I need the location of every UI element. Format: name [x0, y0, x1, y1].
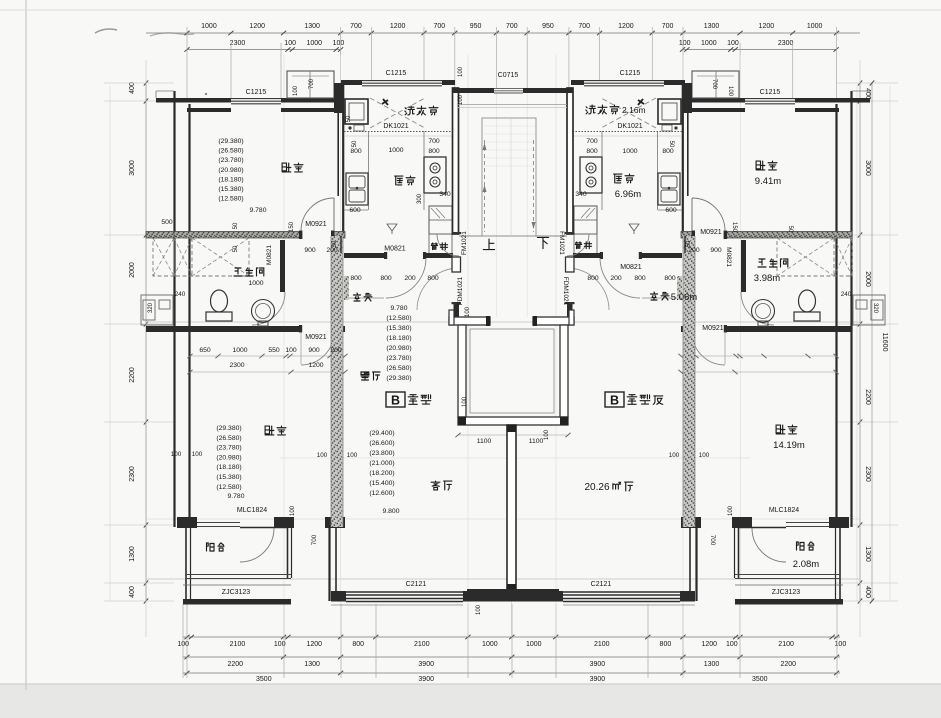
- room label entry right: [651, 292, 658, 300]
- svg-text:700: 700: [311, 534, 318, 545]
- svg-text:100: 100: [462, 396, 468, 407]
- room label living left: [431, 481, 440, 490]
- svg-text:1200: 1200: [390, 23, 406, 30]
- svg-text:3500: 3500: [256, 676, 272, 683]
- svg-text:(23.780): (23.780): [386, 355, 411, 362]
- faucet icon: [382, 99, 388, 105]
- kitchen counter edge: [368, 131, 370, 210]
- svg-text:100: 100: [458, 94, 464, 105]
- window C0715: [494, 88, 523, 90]
- FM door arcs: [437, 234, 459, 256]
- svg-text:700: 700: [428, 138, 440, 145]
- stair top wall: [453, 88, 494, 93]
- west exterior wall: [173, 91, 175, 527]
- svg-text:2100: 2100: [414, 641, 430, 648]
- faint treads: [483, 125, 535, 127]
- svg-text:2.08m: 2.08m: [793, 559, 819, 570]
- svg-text:9.780: 9.780: [249, 207, 266, 214]
- svg-text:20.26: 20.26: [584, 482, 609, 493]
- svg-text:C1215: C1215: [620, 70, 641, 77]
- stairs up down: [483, 239, 494, 250]
- svg-text:2.16m: 2.16m: [622, 105, 646, 115]
- svg-text:C0715: C0715: [498, 72, 519, 79]
- faint vertical construction lines: [283, 55, 285, 637]
- svg-text:100: 100: [728, 505, 734, 516]
- room label entry left: [354, 293, 361, 301]
- kitchen west wall lower: [340, 236, 342, 253]
- svg-text:2200: 2200: [227, 661, 243, 668]
- svg-text:240: 240: [841, 291, 852, 298]
- svg-text:FM1021: FM1021: [461, 231, 468, 255]
- kitchen sink: [346, 173, 368, 205]
- top extension lines: [186, 27, 188, 98]
- svg-text:2300: 2300: [864, 466, 871, 482]
- svg-text:M0821: M0821: [620, 264, 642, 271]
- stair dashed arrow down: [533, 140, 535, 232]
- svg-text:950: 950: [470, 23, 482, 30]
- floor drain triangle: [387, 224, 397, 234]
- svg-text:M0821: M0821: [266, 245, 273, 265]
- window C2121 left (4 lines): [346, 591, 463, 593]
- svg-text:(18.180): (18.180): [386, 335, 411, 342]
- elevator shaft side walls: [458, 325, 466, 417]
- svg-text:(29.380): (29.380): [216, 425, 241, 432]
- svg-text:DK1021: DK1021: [383, 123, 408, 130]
- svg-text:320: 320: [148, 302, 154, 313]
- svg-text:320: 320: [872, 303, 878, 314]
- svg-text:6.96m: 6.96m: [615, 189, 641, 200]
- svg-text:(18.200): (18.200): [369, 470, 394, 477]
- bottom extension lines: [182, 604, 184, 678]
- svg-text:100: 100: [835, 641, 847, 648]
- svg-text:800: 800: [350, 148, 362, 155]
- door arc MLC1824: [240, 528, 274, 562]
- svg-text:1300: 1300: [704, 661, 720, 668]
- washer appliance: [345, 99, 368, 124]
- svg-text:800: 800: [350, 275, 362, 282]
- svg-text:1200: 1200: [308, 362, 323, 369]
- svg-text:50: 50: [233, 245, 239, 252]
- balcony east wall: [287, 517, 289, 578]
- closet walls in hallway: [344, 276, 349, 300]
- counter right edge: [423, 131, 425, 157]
- toilet: [206, 312, 232, 321]
- svg-text:900: 900: [710, 247, 722, 254]
- left dimension chain: [145, 83, 147, 601]
- svg-text:FDM1021: FDM1021: [457, 276, 464, 305]
- svg-text:50: 50: [787, 226, 793, 233]
- svg-text:C2121: C2121: [406, 581, 427, 588]
- svg-text:(26.580): (26.580): [386, 365, 411, 372]
- top-left scan smudges: [95, 29, 117, 33]
- svg-text:100: 100: [458, 66, 464, 77]
- svg-text:500: 500: [161, 219, 173, 226]
- svg-text:800: 800: [634, 275, 646, 282]
- svg-text:1000: 1000: [232, 347, 247, 354]
- svg-text:1000: 1000: [701, 40, 717, 47]
- room label laundry left: [405, 106, 415, 115]
- svg-text:1000: 1000: [622, 148, 637, 155]
- svg-text:550: 550: [268, 347, 280, 354]
- svg-text:3900: 3900: [418, 676, 434, 683]
- room label dining left: [361, 372, 369, 380]
- svg-text:100: 100: [171, 451, 182, 458]
- stair landing line: [459, 235, 567, 237]
- svg-text:(12.580): (12.580): [218, 196, 243, 203]
- room label bedroom2 left: [265, 426, 274, 435]
- svg-text:100: 100: [293, 85, 299, 96]
- svg-text:1200: 1200: [618, 23, 634, 30]
- svg-text:1200: 1200: [702, 641, 718, 648]
- stair core east wall: [567, 88, 573, 234]
- svg-text:2100: 2100: [230, 641, 246, 648]
- balcony west wall: [185, 528, 187, 604]
- svg-text:200: 200: [330, 347, 342, 354]
- bottom scanner gray band: [0, 684, 941, 718]
- svg-text:900: 900: [308, 347, 320, 354]
- svg-text:2000: 2000: [129, 262, 136, 278]
- svg-text:(29.380): (29.380): [218, 138, 243, 145]
- stair dashed arrow up: [484, 140, 486, 232]
- svg-text:(20.980): (20.980): [386, 345, 411, 352]
- svg-text:800: 800: [352, 641, 364, 648]
- svg-text:3900: 3900: [418, 661, 434, 668]
- svg-text:2300: 2300: [230, 40, 246, 47]
- svg-text:150: 150: [731, 222, 737, 233]
- unit label B right: [605, 392, 624, 407]
- svg-text:800: 800: [660, 641, 672, 648]
- svg-text:2200: 2200: [129, 367, 136, 383]
- svg-text:9.780: 9.780: [227, 493, 244, 500]
- svg-text:100: 100: [192, 451, 203, 458]
- svg-text:1000: 1000: [388, 147, 403, 154]
- top dimension line row1: [146, 32, 860, 34]
- bottom dimension row2: [183, 656, 840, 658]
- svg-text:400: 400: [129, 82, 136, 94]
- svg-text:M0921: M0921: [700, 229, 722, 236]
- left unit top exterior wall: [156, 98, 231, 103]
- svg-text:M0921: M0921: [702, 325, 724, 332]
- svg-text:1300: 1300: [304, 661, 320, 668]
- right unit geometry (mirror): [559, 71, 885, 605]
- svg-text:900: 900: [304, 247, 316, 254]
- svg-text:600: 600: [349, 207, 361, 214]
- stove: [424, 157, 446, 193]
- svg-text:800: 800: [662, 148, 674, 155]
- svg-text:400: 400: [129, 586, 136, 598]
- svg-text:1000: 1000: [248, 280, 263, 287]
- svg-text:100: 100: [285, 347, 297, 354]
- svg-text:100: 100: [726, 641, 738, 648]
- svg-text:1000: 1000: [306, 40, 322, 47]
- svg-text:3000: 3000: [129, 160, 136, 176]
- structural speckled wall band: [331, 236, 343, 527]
- balcony south rail/window ZJC3123: [186, 574, 291, 576]
- svg-text:950: 950: [542, 23, 554, 30]
- room label bedroom1 left: [282, 163, 291, 172]
- svg-text:100: 100: [317, 452, 328, 459]
- unit label B left: [386, 392, 405, 407]
- svg-text:2300: 2300: [778, 40, 794, 47]
- kitchen south wall w/ door M0821: [344, 253, 384, 258]
- left page edge line: [25, 0, 27, 690]
- room label shaft left: [431, 243, 437, 250]
- svg-text:(20.980): (20.980): [218, 167, 243, 174]
- svg-text:3000: 3000: [864, 160, 871, 176]
- svg-text:14.19m: 14.19m: [773, 440, 805, 451]
- svg-text:50: 50: [346, 115, 352, 122]
- svg-text:M0921: M0921: [305, 334, 327, 341]
- svg-text:2300: 2300: [229, 362, 244, 369]
- svg-text:100: 100: [679, 40, 691, 47]
- svg-text:340: 340: [575, 191, 587, 198]
- svg-text:700: 700: [309, 78, 315, 89]
- room label balcony right: [797, 542, 805, 550]
- entry door arc FDM1021: [417, 268, 459, 310]
- svg-text:1200: 1200: [306, 641, 322, 648]
- svg-text:50: 50: [686, 240, 692, 247]
- svg-text:(29.380): (29.380): [386, 375, 411, 382]
- wash basin: [252, 300, 275, 323]
- balcony corner block NE: [274, 517, 294, 528]
- svg-text:M0821: M0821: [384, 246, 406, 253]
- stair inner outline: [482, 118, 536, 236]
- svg-text:MLC1824: MLC1824: [769, 507, 799, 514]
- svg-text:800: 800: [586, 148, 598, 155]
- svg-text:100: 100: [290, 505, 296, 516]
- room label bathroom left: [234, 268, 242, 276]
- svg-text:800: 800: [428, 148, 440, 155]
- svg-text:200: 200: [404, 275, 416, 282]
- svg-text:MLC1824: MLC1824: [237, 507, 267, 514]
- svg-text:C1215: C1215: [760, 89, 781, 96]
- stair core west wall: [453, 88, 459, 234]
- svg-text:2200: 2200: [781, 661, 797, 668]
- svg-text:9.800: 9.800: [382, 508, 399, 515]
- top dimension line row2: [187, 49, 341, 51]
- svg-text:240: 240: [175, 291, 186, 298]
- svg-text:100: 100: [476, 604, 482, 615]
- svg-text:1300: 1300: [129, 546, 136, 562]
- svg-text:(15.400): (15.400): [369, 480, 394, 487]
- bathroom east partition w/ door M0821: [280, 240, 285, 292]
- door arc M0921 lower: [301, 332, 334, 365]
- svg-text:300: 300: [417, 193, 423, 204]
- corner column top: [334, 83, 343, 113]
- svg-text:1000: 1000: [482, 641, 498, 648]
- elevator shaft bottom wall: [458, 417, 568, 425]
- svg-text:600: 600: [665, 207, 677, 214]
- right dimension chain: [859, 83, 861, 601]
- svg-text:B: B: [610, 394, 619, 408]
- long construction lines: [145, 60, 147, 637]
- svg-text:1200: 1200: [759, 23, 775, 30]
- room label shaft right: [575, 242, 581, 249]
- room label balcony left: [207, 543, 215, 551]
- svg-text:100: 100: [699, 452, 710, 459]
- svg-text:1300: 1300: [864, 546, 871, 562]
- bedroom1 east wall: [337, 104, 339, 196]
- svg-text:400: 400: [864, 586, 871, 598]
- stair upper landing lines: [458, 104, 567, 106]
- svg-text:1000: 1000: [807, 23, 823, 30]
- svg-text:(29.400): (29.400): [369, 430, 394, 437]
- svg-text:(26.580): (26.580): [218, 148, 243, 155]
- svg-text:50: 50: [332, 240, 338, 247]
- svg-text:2300: 2300: [129, 466, 136, 482]
- svg-text:50: 50: [352, 140, 358, 147]
- svg-text:3500: 3500: [752, 676, 768, 683]
- svg-text:9.780: 9.780: [390, 305, 407, 312]
- svg-text:100: 100: [284, 40, 296, 47]
- svg-text:50: 50: [668, 141, 674, 148]
- svg-text:100: 100: [465, 306, 471, 317]
- svg-text:2100: 2100: [594, 641, 610, 648]
- svg-text:2000: 2000: [864, 271, 871, 287]
- pipe shaft 管井: [429, 206, 452, 234]
- svg-text:700: 700: [711, 79, 717, 90]
- svg-text:1000: 1000: [526, 641, 542, 648]
- bathroom hatch extra cell left: [153, 238, 174, 276]
- svg-text:100: 100: [347, 452, 358, 459]
- svg-text:700: 700: [709, 535, 716, 546]
- svg-text:700: 700: [586, 138, 598, 145]
- elevator shaft top walls: [449, 317, 490, 325]
- bathroom inner dim lines: [190, 355, 345, 357]
- room label bedroom2 right: [776, 425, 785, 434]
- svg-text:(23.780): (23.780): [218, 157, 243, 164]
- svg-text:200: 200: [610, 275, 622, 282]
- svg-text:(20.980): (20.980): [216, 454, 241, 461]
- svg-text:800: 800: [427, 275, 439, 282]
- svg-text:FM1021: FM1021: [558, 231, 565, 255]
- bottom dimension row3 (cut by gray band): [183, 672, 840, 674]
- door arc kitchen M0821: [386, 258, 426, 298]
- svg-text:1100: 1100: [477, 438, 492, 445]
- svg-text:800: 800: [664, 275, 676, 282]
- svg-text:3.98m: 3.98m: [754, 273, 780, 284]
- svg-text:100: 100: [669, 452, 680, 459]
- svg-text:(26.580): (26.580): [216, 435, 241, 442]
- svg-text:C1215: C1215: [246, 89, 267, 96]
- window C1215 top-left (triple line): [231, 98, 281, 100]
- svg-text:50: 50: [233, 222, 239, 229]
- svg-text:(15.380): (15.380): [386, 325, 411, 332]
- svg-text:700: 700: [434, 23, 446, 30]
- wall end block balcony NW: [177, 517, 197, 528]
- svg-text:100: 100: [727, 86, 733, 97]
- svg-text:B: B: [391, 394, 400, 408]
- washing room top wall: [341, 80, 362, 85]
- svg-text:650: 650: [199, 347, 211, 354]
- AC platform left: [141, 295, 173, 325]
- svg-text:5.06m: 5.06m: [671, 292, 697, 303]
- svg-text:1100: 1100: [529, 438, 544, 445]
- svg-text:M0821: M0821: [725, 247, 732, 267]
- svg-text:(23.800): (23.800): [369, 450, 394, 457]
- room label kitchen left: [395, 176, 403, 185]
- svg-text:(18.180): (18.180): [216, 464, 241, 471]
- window C1215 washing room: [362, 80, 442, 82]
- bedroom2 (lower) MLC1824 door wall: [190, 522, 240, 524]
- svg-text:150: 150: [289, 221, 295, 232]
- svg-text:100: 100: [727, 40, 739, 47]
- bottom dimension row1: [183, 636, 840, 638]
- svg-text:C1215: C1215: [386, 70, 407, 77]
- room label kitchen right: [614, 174, 622, 183]
- washing room X cross: [370, 98, 425, 128]
- room label bedroom1 right: [756, 161, 765, 170]
- room label laundry right: [586, 105, 596, 114]
- svg-text:(12.580): (12.580): [216, 484, 241, 491]
- svg-text:700: 700: [662, 23, 674, 30]
- room label bathroom right: [758, 259, 766, 267]
- svg-text:1000: 1000: [201, 23, 217, 30]
- svg-text:C2121: C2121: [591, 581, 612, 588]
- party wall between living rooms: [507, 425, 516, 591]
- svg-text:(15.380): (15.380): [218, 186, 243, 193]
- column above MLC corner: [325, 517, 345, 528]
- svg-text:(12.600): (12.600): [369, 490, 394, 497]
- right total line: [871, 83, 873, 601]
- svg-text:(26.600): (26.600): [369, 440, 394, 447]
- bedroom1 south wall w/ door gap M0921: [174, 232, 300, 239]
- svg-text:9.41m: 9.41m: [755, 176, 781, 187]
- svg-text:2100: 2100: [778, 641, 794, 648]
- bathroom wall left extensions: [146, 232, 174, 239]
- svg-text:M0921: M0921: [305, 221, 327, 228]
- svg-text:(21.000): (21.000): [369, 460, 394, 467]
- svg-text:3900: 3900: [590, 676, 606, 683]
- svg-text:1300: 1300: [304, 23, 320, 30]
- bottom center wall: [467, 589, 559, 593]
- bottom wall solid left piece: [331, 591, 346, 602]
- svg-text:11600: 11600: [881, 333, 888, 352]
- svg-text:1200: 1200: [249, 23, 265, 30]
- 1100 dim line: [458, 434, 568, 436]
- svg-text:800: 800: [587, 275, 599, 282]
- svg-text:ZJC3123: ZJC3123: [222, 589, 251, 596]
- living room west wall: [328, 528, 330, 601]
- svg-text:(15.380): (15.380): [216, 474, 241, 481]
- svg-text:1300: 1300: [704, 23, 720, 30]
- svg-text:2200: 2200: [864, 389, 871, 405]
- bathroom hatch closet (dashed X boxes): [174, 238, 249, 276]
- svg-text:100: 100: [544, 429, 550, 440]
- svg-text:100: 100: [333, 40, 345, 47]
- door jambs FM/FDM: [452, 232, 462, 234]
- svg-text:(18.180): (18.180): [218, 176, 243, 183]
- svg-text:FDM1021: FDM1021: [562, 277, 569, 306]
- DK1021 opening line: [344, 131, 454, 133]
- svg-text:700: 700: [578, 23, 590, 30]
- svg-text:3900: 3900: [590, 661, 606, 668]
- svg-text:ZJC3123: ZJC3123: [772, 589, 801, 596]
- shaft inner line: [470, 329, 554, 413]
- svg-text:340: 340: [439, 191, 451, 198]
- svg-text:DK1021: DK1021: [617, 123, 642, 130]
- door arc bedroom1: [301, 198, 334, 231]
- svg-text:700: 700: [506, 23, 518, 30]
- top closet bump: [287, 71, 334, 98]
- svg-text:(12.580): (12.580): [386, 315, 411, 322]
- bathroom bottom wall: [174, 326, 300, 332]
- svg-text:(23.780): (23.780): [216, 445, 241, 452]
- svg-text:700: 700: [350, 23, 362, 30]
- svg-text:800: 800: [380, 275, 392, 282]
